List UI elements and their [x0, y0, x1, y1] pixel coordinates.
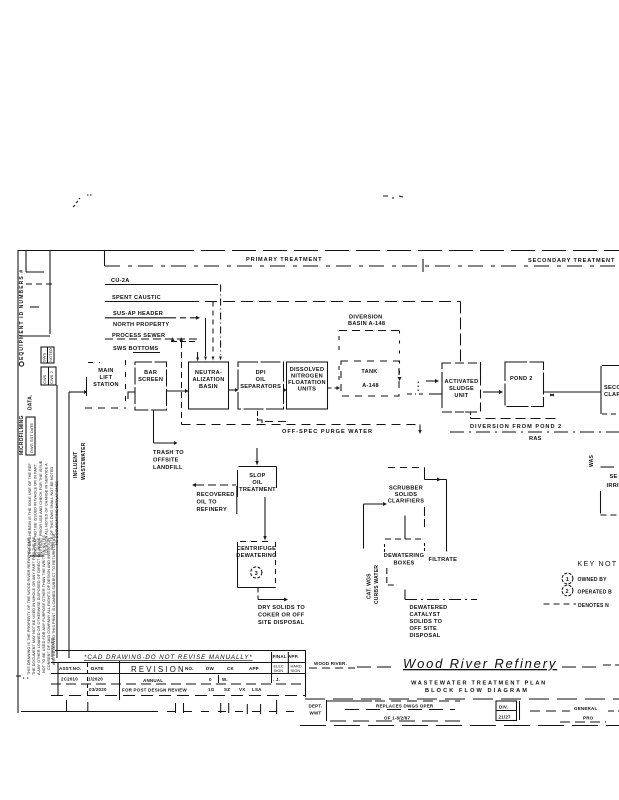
svg-text:2C2010: 2C2010	[61, 677, 78, 682]
svg-text:PRO: PRO	[583, 716, 594, 721]
svg-text:WWT: WWT	[310, 711, 322, 716]
svg-text:TRASH TO: TRASH TO	[153, 450, 184, 456]
svg-text:SUS-AP HEADER: SUS-AP HEADER	[113, 311, 163, 317]
svg-text:SCRUBBER: SCRUBBER	[389, 486, 423, 492]
svg-text:SOLIDS TO: SOLIDS TO	[410, 619, 443, 625]
svg-text:DATA.: DATA.	[28, 394, 34, 410]
svg-text:PRIMARY TREATMENT: PRIMARY TREATMENT	[246, 257, 322, 263]
svg-text:TANK: TANK	[361, 369, 377, 375]
svg-text:WAS: WAS	[589, 455, 595, 467]
svg-text:FILTRATE: FILTRATE	[429, 557, 458, 563]
svg-text:A-148: A-148	[362, 383, 379, 389]
svg-text:SITE DISPOSAL: SITE DISPOSAL	[258, 620, 305, 626]
svg-text:ALIZATION: ALIZATION	[192, 377, 224, 383]
svg-text:APP: APP	[249, 666, 259, 671]
svg-text:POND 2: POND 2	[510, 376, 533, 382]
svg-text:DEWATERING: DEWATERING	[236, 553, 277, 559]
svg-text:CURBS WATER: CURBS WATER	[374, 565, 380, 604]
svg-text:COKER OR OFF: COKER OR OFF	[258, 613, 305, 619]
svg-text:THE DOCUMENT MAY NOT BE USED I: THE DOCUMENT MAY NOT BE USED IN WHOLE OR…	[32, 536, 36, 675]
svg-text:NITROGEN: NITROGEN	[291, 374, 323, 380]
svg-text:VX: VX	[239, 687, 245, 692]
svg-text:FOR POST DESIGN REVIEW: FOR POST DESIGN REVIEW	[122, 688, 187, 693]
svg-text:CAT. WGS: CAT. WGS	[367, 573, 373, 599]
svg-text:. J.: . J.	[273, 677, 280, 682]
svg-text:DISSOLVED: DISSOLVED	[290, 367, 325, 373]
svg-text:SEPARATORS: SEPARATORS	[240, 384, 281, 390]
svg-text:SIGN: SIGN	[274, 669, 284, 673]
svg-text:SLUDGE: SLUDGE	[449, 386, 474, 392]
svg-text:1: 1	[566, 577, 569, 583]
svg-text:WASTEWATER TREATMENT PLAN: WASTEWATER TREATMENT PLAN	[411, 681, 547, 687]
svg-text:ELEC: ELEC	[274, 665, 284, 669]
svg-text:SE: SE	[610, 474, 618, 480]
svg-text:SIGN: SIGN	[291, 669, 301, 673]
svg-text:DWG SST DATE: DWG SST DATE	[29, 423, 34, 453]
svg-text:*CAD DRAWING-DO NOT REVISE MAN: *CAD DRAWING-DO NOT REVISE MANUALLY*	[84, 654, 253, 661]
svg-text:21/27: 21/27	[499, 715, 512, 720]
svg-text:A ANY OTHER LOANED OR OTHERWIS: A ANY OTHER LOANED OR OTHERWISE DISPOSED…	[37, 537, 41, 675]
svg-text:ACTIVATED: ACTIVATED	[445, 379, 479, 385]
svg-text:OF 1-8/2/87: OF 1-8/2/87	[384, 716, 411, 721]
svg-text:CWS: CWS	[42, 374, 47, 384]
svg-text:DEPT.: DEPT.	[309, 704, 323, 709]
svg-text:BLOCK FLOW DIAGRAM: BLOCK FLOW DIAGRAM	[425, 688, 529, 694]
svg-text:UNIT: UNIT	[454, 393, 469, 399]
svg-text:DIV.: DIV.	[499, 705, 508, 710]
svg-text:NORTH PROPERTY: NORTH PROPERTY	[113, 322, 169, 328]
svg-text:TREATMENT: TREATMENT	[239, 487, 276, 493]
svg-text:LIFT: LIFT	[99, 375, 112, 381]
svg-text:SECONDARY TREATMENT: SECONDARY TREATMENT	[528, 258, 615, 264]
svg-text:EQUIPMENT ID NUMBERS #: EQUIPMENT ID NUMBERS #	[19, 269, 25, 360]
svg-text:1G: 1G	[208, 687, 215, 692]
svg-text:IRRIGAT: IRRIGAT	[607, 483, 619, 489]
svg-text:OIL: OIL	[252, 480, 263, 486]
svg-text:W.: W.	[222, 677, 228, 682]
svg-text:RECOVERED: RECOVERED	[197, 492, 235, 498]
svg-text:LSA: LSA	[252, 687, 262, 692]
svg-text:CWS 2: CWS 2	[49, 371, 54, 384]
svg-text:OWNED BY: OWNED BY	[578, 577, 608, 583]
svg-text:REFINERY: REFINERY	[197, 507, 227, 513]
svg-text:SWS BOTTOMS: SWS BOTTOMS	[113, 346, 158, 352]
svg-text:OFFSITE: OFFSITE	[153, 458, 179, 464]
svg-text:OPERATED B: OPERATED B	[578, 590, 613, 596]
svg-text:03/2020: 03/2020	[89, 687, 107, 692]
svg-text:RAS: RAS	[529, 436, 542, 442]
svg-text:BASIN: BASIN	[199, 384, 218, 390]
svg-text:LANDFILL: LANDFILL	[153, 465, 183, 471]
svg-text:DIVERSION FROM POND 2: DIVERSION FROM POND 2	[470, 424, 562, 430]
svg-text:NO.: NO.	[185, 666, 194, 671]
svg-text:CK: CK	[227, 666, 234, 671]
svg-text:MICROFILMING: MICROFILMING	[19, 415, 25, 455]
svg-text:DRY SOLIDS TO: DRY SOLIDS TO	[258, 605, 305, 611]
svg-text:INFLUENT: INFLUENT	[73, 452, 79, 478]
svg-text:BOXES: BOXES	[393, 561, 414, 567]
svg-text:OFF-SPEC PURGE WATER: OFF-SPEC PURGE WATER	[282, 429, 373, 435]
svg-text:APPROVED: APPROVED	[50, 638, 55, 660]
svg-text:PROCESS SEWER: PROCESS SEWER	[112, 333, 165, 339]
svg-text:3: 3	[255, 571, 258, 577]
svg-text:CLARIF: CLARIF	[604, 392, 619, 398]
svg-text:GENERAL: GENERAL	[574, 706, 597, 711]
svg-text:OIL: OIL	[256, 377, 267, 383]
svg-text:CU-2A: CU-2A	[111, 278, 130, 284]
svg-text:ANNUAL: ANNUAL	[143, 678, 163, 683]
svg-text:NOT TO BE USED FOR ANY PURPOSE: NOT TO BE USED FOR ANY PURPOSE OTHER THA…	[42, 535, 46, 673]
svg-text:SPENT CAUSTIC: SPENT CAUSTIC	[112, 295, 161, 301]
svg-text:NEUTRA-: NEUTRA-	[195, 370, 222, 376]
svg-text:DATE: DATE	[91, 666, 104, 671]
svg-text:STATION: STATION	[93, 382, 119, 388]
svg-text:DW: DW	[206, 666, 214, 671]
svg-text:UNITS: UNITS	[298, 387, 316, 393]
svg-text:REPLACES DWGS OPER: REPLACES DWGS OPER	[376, 704, 434, 709]
svg-text:FINAL APP.: FINAL APP.	[273, 654, 299, 659]
svg-text:NOTED: NOTED	[48, 348, 53, 362]
svg-text:SECON: SECON	[604, 385, 619, 391]
svg-text:ASST.NO.: ASST.NO.	[59, 666, 81, 671]
svg-text:DIVERSION: DIVERSION	[349, 315, 382, 321]
svg-text:MAIN: MAIN	[98, 368, 114, 374]
svg-text:DISPOSAL: DISPOSAL	[410, 633, 441, 639]
svg-text:WASTEWATER: WASTEWATER	[81, 442, 87, 480]
svg-text:FLOATATION: FLOATATION	[288, 380, 326, 386]
svg-text:DEWATERING: DEWATERING	[384, 553, 425, 559]
svg-text:SZ: SZ	[224, 687, 230, 692]
svg-text:CATALYST: CATALYST	[410, 612, 441, 618]
svg-text:DEWATERED: DEWATERED	[410, 605, 448, 611]
svg-text:SOLIDS: SOLIDS	[395, 492, 418, 498]
svg-text:OFF SITE: OFF SITE	[410, 626, 438, 632]
svg-text:BAR: BAR	[144, 370, 157, 376]
svg-text:REVISION: REVISION	[131, 665, 186, 674]
svg-text:SWS: SWS	[42, 353, 47, 362]
svg-text:DENOTES N: DENOTES N	[578, 603, 609, 609]
svg-text:OIL TO: OIL TO	[197, 500, 218, 506]
svg-text:Wood River Refinery: Wood River Refinery	[403, 656, 557, 671]
svg-text:WOOD RIVER.: WOOD RIVER.	[314, 661, 347, 666]
svg-text:2: 2	[566, 589, 569, 595]
svg-text:0: 0	[209, 677, 212, 682]
svg-text:SLOP: SLOP	[249, 473, 265, 479]
svg-text:THIS DRAWING IS THE PROPERTY O: THIS DRAWING IS THE PROPERTY OF THE WOOD…	[27, 537, 31, 675]
svg-text:CENTRIFUGE: CENTRIFUGE	[237, 546, 276, 552]
svg-text:1/2020: 1/2020	[88, 677, 103, 682]
svg-text:SCREEN: SCREEN	[138, 377, 163, 383]
svg-text:CLARIFIERS: CLARIFIERS	[388, 499, 425, 505]
svg-text:BASIN A-148: BASIN A-148	[348, 321, 385, 327]
svg-text:KEY NOT: KEY NOT	[578, 559, 618, 568]
svg-text:HARD: HARD	[291, 665, 302, 669]
svg-text:DPI: DPI	[256, 370, 266, 376]
